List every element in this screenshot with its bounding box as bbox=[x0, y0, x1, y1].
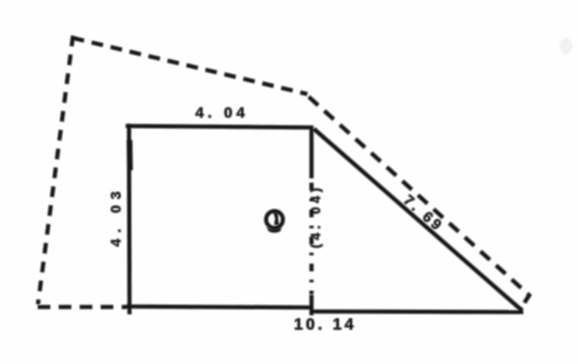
dashed boundary bottom-right hook bbox=[521, 294, 530, 308]
square top edge bbox=[126, 126, 313, 128]
dashed boundary bottom-left segment bbox=[38, 305, 128, 309]
square bottom edge bbox=[126, 307, 313, 308]
bottom extension line bbox=[311, 310, 523, 314]
svg-text:4. 03: 4. 03 bbox=[108, 185, 124, 246]
svg-text:(4. 04): (4. 04) bbox=[309, 184, 323, 248]
dashed boundary right diagonal bbox=[309, 97, 529, 295]
square right edge dash-dot middle part bbox=[310, 183, 314, 294]
square left edge scan blob bbox=[127, 140, 133, 170]
solid diagonal line bbox=[314, 129, 522, 311]
square right edge solid upper part bbox=[310, 126, 314, 178]
dashed boundary left edge bbox=[38, 36, 73, 304]
square left edge bbox=[127, 124, 131, 314]
svg-text:10. 14: 10. 14 bbox=[294, 317, 356, 334]
faint scan speck top-right bbox=[560, 38, 572, 54]
circled marker chin blob bbox=[267, 228, 281, 233]
svg-text:4. 04: 4. 04 bbox=[195, 105, 248, 122]
circled marker inner glyph bbox=[274, 212, 279, 225]
square right edge solid lower part bbox=[310, 295, 314, 315]
dashed boundary top edge bbox=[73, 38, 307, 94]
circled marker outline bbox=[266, 211, 283, 228]
